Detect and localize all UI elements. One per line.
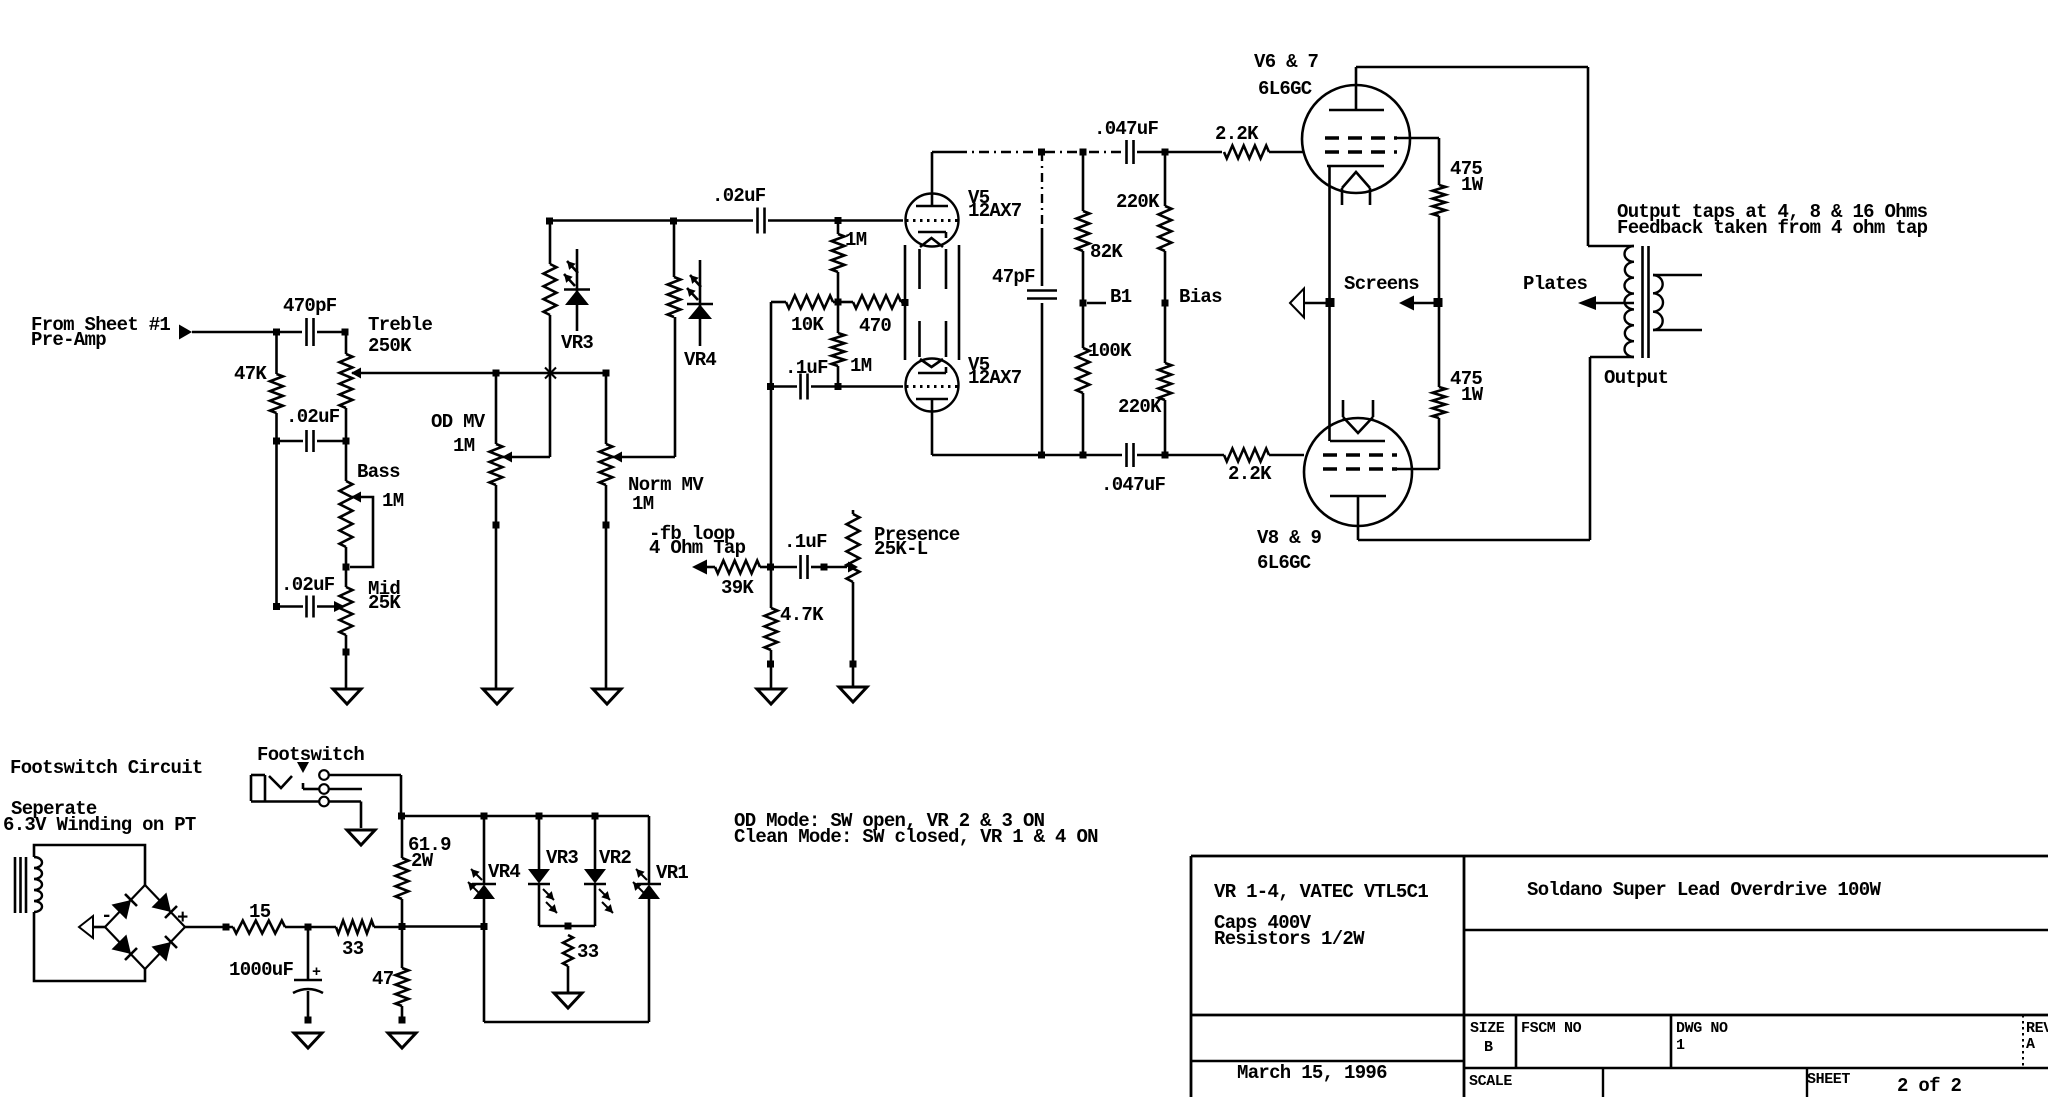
diode bridge bottom-right	[152, 936, 178, 962]
label date March 15 1996	[1237, 1062, 1387, 1084]
node bridge plus	[177, 907, 188, 929]
svg-text:1: 1	[1676, 1037, 1685, 1054]
vactrol VR2 LED footswitch	[584, 816, 631, 926]
resistor 220K lower	[1118, 303, 1172, 459]
svg-text:1M: 1M	[850, 355, 872, 377]
wire plus rail to VR4	[402, 923, 488, 930]
note VR 1-4 VATEC VTL5C1	[1214, 881, 1428, 903]
svg-text:Plates: Plates	[1523, 273, 1588, 295]
label FSCM NO	[1521, 1020, 1582, 1037]
resistor 475 1W lower	[1433, 303, 1484, 469]
svg-text:Footswitch: Footswitch	[257, 744, 364, 766]
capacitor .047uF lower	[1101, 443, 1224, 496]
ground Norm MV	[593, 689, 621, 704]
bridge rectifier diamond	[105, 885, 185, 969]
node Bias	[1162, 286, 1223, 308]
svg-text:1M: 1M	[845, 229, 867, 251]
svg-text:VR 1-4, VATEC VTL5C1: VR 1-4, VATEC VTL5C1	[1214, 881, 1428, 903]
svg-text:25K: 25K	[368, 592, 401, 614]
note OD mode	[734, 810, 1098, 848]
node Output	[1604, 367, 1668, 389]
node bridge minus	[79, 905, 112, 938]
svg-text:33: 33	[577, 941, 599, 963]
capacitor .1uF presence	[771, 531, 847, 579]
svg-text:6L6GC: 6L6GC	[1257, 552, 1311, 574]
svg-text:Soldano Super Lead Overdrive 1: Soldano Super Lead Overdrive 100W	[1527, 879, 1881, 901]
svg-text:1W: 1W	[1461, 174, 1484, 196]
svg-text:Clean Mode: SW closed, VR 1 &: Clean Mode: SW closed, VR 1 & 4 ON	[734, 826, 1098, 848]
resistor 475 1W upper	[1433, 158, 1484, 303]
wire jack ring stub	[329, 788, 362, 791]
svg-text:REV: REV	[2026, 1020, 2048, 1037]
svg-text:25K-L: 25K-L	[874, 538, 928, 560]
svg-text:1W: 1W	[1461, 384, 1484, 406]
label SIZE B	[1470, 1020, 1505, 1056]
svg-text:33: 33	[342, 938, 364, 960]
svg-text:FSCM NO: FSCM NO	[1521, 1020, 1582, 1037]
capacitor 1000uF	[229, 927, 323, 1024]
transformer T1 primary	[1625, 246, 1635, 357]
wire to V5 grid	[838, 219, 903, 222]
wire V5 cathode leads	[920, 249, 947, 357]
svg-text:250K: 250K	[368, 335, 412, 357]
wire plate rail bottom	[932, 454, 1122, 457]
resistor 47K	[234, 332, 283, 445]
svg-text:.047uF: .047uF	[1094, 118, 1159, 140]
wire input to 470pF	[192, 329, 302, 336]
wire 10K down leg	[767, 302, 774, 571]
ground OD MV	[483, 689, 511, 704]
svg-text:2.2K: 2.2K	[1228, 463, 1272, 485]
wire grid rail top	[550, 219, 754, 222]
potentiometer OD MV 1M	[431, 373, 512, 689]
note output taps	[1617, 201, 1928, 239]
svg-text:12AX7: 12AX7	[968, 367, 1022, 389]
note seperate winding	[3, 798, 196, 836]
svg-text:82K: 82K	[1090, 241, 1123, 263]
transformer T1 core	[1643, 246, 1649, 358]
svg-text:Bass: Bass	[357, 461, 400, 483]
potentiometer Mid 25K	[340, 547, 402, 689]
svg-text:220K: 220K	[1118, 396, 1162, 418]
resistor 47	[372, 927, 409, 1024]
wire bridge output	[185, 924, 233, 931]
diode bridge top-right	[152, 893, 178, 919]
svg-text:47: 47	[372, 968, 394, 990]
wire Norm wiper to VR4	[612, 317, 675, 457]
label SHEET 2 of 2	[1807, 1071, 1962, 1097]
svg-text:-: -	[101, 905, 112, 927]
resistor 2.2K lower	[1224, 449, 1304, 486]
potentiometer Presence 25K-L	[847, 510, 960, 687]
svg-text:2W: 2W	[411, 850, 434, 872]
vactrol VR3 LED footswitch	[528, 816, 578, 926]
capacitor .1uF cathode	[767, 357, 838, 400]
svg-text:SHEET: SHEET	[1807, 1071, 1850, 1088]
ground 4.7K	[757, 689, 785, 704]
node Plates	[1523, 273, 1634, 310]
label REV A	[2026, 1020, 2048, 1053]
svg-text:100K: 100K	[1088, 340, 1132, 362]
resistor 100K	[1077, 303, 1133, 459]
wire OD wiper to VR3	[502, 315, 556, 457]
diode bridge bottom-left	[112, 935, 138, 961]
svg-text:VR1: VR1	[656, 862, 688, 884]
svg-text:A: A	[2026, 1036, 2035, 1053]
svg-text:+: +	[312, 964, 321, 981]
jack footswitch	[251, 744, 364, 806]
capacitor 470pF	[283, 295, 349, 346]
triode V5 lower 12AX7	[906, 354, 1022, 455]
svg-text:.02uF: .02uF	[712, 185, 766, 207]
capacitor .02uF mid	[277, 574, 346, 618]
svg-text:DWG NO: DWG NO	[1676, 1020, 1728, 1037]
note footswitch circuit	[10, 757, 203, 779]
svg-text:470: 470	[859, 315, 891, 337]
wire V5 envelope sides	[905, 245, 959, 360]
wire treble wiper rail	[352, 370, 610, 377]
wire screen tap lower	[1394, 468, 1439, 471]
pentode V6 and 7 6L6GC	[1254, 51, 1410, 205]
svg-text:VR4: VR4	[488, 861, 520, 883]
transformer PT core	[15, 857, 26, 913]
svg-text:.02uF: .02uF	[281, 574, 335, 596]
svg-text:15: 15	[249, 901, 271, 923]
wire jack sleeve to ground	[329, 802, 361, 829]
svg-text:Bias: Bias	[1179, 286, 1222, 308]
svg-text:6.3V Winding on PT: 6.3V Winding on PT	[3, 814, 196, 836]
ground vactrol 33	[554, 993, 582, 1008]
ground 1000uF	[294, 1033, 322, 1048]
node -fb loop 4 Ohm Tap	[649, 523, 746, 575]
resistor 470	[838, 296, 909, 338]
svg-text:Pre-Amp: Pre-Amp	[31, 329, 106, 351]
pentode V8 and 9 6L6GC	[1257, 400, 1412, 574]
svg-text:.1uF: .1uF	[784, 531, 827, 553]
svg-text:V6 & 7: V6 & 7	[1254, 51, 1319, 73]
node input From Sheet #1 Pre-Amp	[31, 314, 192, 351]
transformer T1 secondary	[1653, 275, 1702, 330]
svg-text:B: B	[1484, 1039, 1493, 1056]
node Screens	[1290, 273, 1443, 318]
svg-text:12AX7: 12AX7	[968, 200, 1022, 222]
wire VR2 VR3 bottom rail	[539, 923, 595, 930]
svg-text:2 of 2: 2 of 2	[1897, 1075, 1962, 1097]
potentiometer Bass 1M	[340, 441, 404, 571]
wire jack tip to rail	[329, 775, 405, 820]
wire plate rail top	[932, 149, 1122, 156]
svg-text:OD MV: OD MV	[431, 411, 486, 433]
title Soldano Super Lead Overdrive 100W	[1527, 879, 1881, 901]
note caps resistors	[1214, 912, 1365, 950]
ground 47	[388, 1033, 416, 1048]
svg-text:1000uF: 1000uF	[229, 959, 294, 981]
wire .1uF to V5 lower grid	[838, 385, 903, 388]
svg-text:Screens: Screens	[1344, 273, 1419, 295]
vactrol VR4 LDR	[668, 218, 717, 372]
svg-text:Feedback taken from 4 ohm tap: Feedback taken from 4 ohm tap	[1617, 217, 1928, 239]
resistor 39K	[715, 561, 771, 600]
wire V8 plate to transformer	[1358, 357, 1634, 540]
resistor 10K	[771, 296, 838, 337]
svg-text:39K: 39K	[721, 577, 754, 599]
svg-text:47K: 47K	[234, 363, 267, 385]
svg-text:47pF: 47pF	[992, 266, 1035, 288]
svg-text:March 15, 1996: March 15, 1996	[1237, 1062, 1387, 1084]
capacitor 47pF	[992, 152, 1057, 459]
title block frame	[1191, 856, 2048, 1097]
node B1	[1080, 286, 1132, 308]
resistor 15	[233, 901, 312, 934]
diode bridge top-left	[112, 894, 138, 920]
svg-text:VR3: VR3	[546, 847, 578, 869]
svg-text:Output: Output	[1604, 367, 1668, 389]
potentiometer Treble 250K	[340, 314, 433, 441]
resistor 1M grid	[832, 221, 867, 306]
label DWG NO 1	[1676, 1020, 1728, 1054]
capacitor .02uF tone	[273, 406, 350, 610]
resistor 2.2K upper	[1215, 123, 1304, 159]
svg-text:4.7K: 4.7K	[780, 604, 824, 626]
transformer PT winding	[34, 845, 145, 981]
svg-text:220K: 220K	[1116, 191, 1160, 213]
svg-text:VR4: VR4	[684, 349, 716, 371]
vactrol VR1 LED footswitch	[633, 816, 688, 1022]
ground mid pot	[333, 689, 361, 704]
triode V5 upper 12AX7	[906, 152, 1022, 247]
svg-text:4 Ohm Tap: 4 Ohm Tap	[649, 537, 746, 559]
svg-text:.047uF: .047uF	[1101, 474, 1166, 496]
capacitor .047uF upper	[1094, 118, 1222, 164]
svg-text:SIZE: SIZE	[1470, 1020, 1505, 1037]
resistor 33	[308, 921, 406, 961]
potentiometer Norm MV 1M	[600, 373, 705, 689]
svg-text:.1uF: .1uF	[785, 357, 828, 379]
vactrol VR4 LED footswitch	[468, 816, 520, 1022]
svg-text:SCALE: SCALE	[1469, 1073, 1512, 1090]
svg-text:VR3: VR3	[561, 332, 593, 354]
svg-text:Resistors 1/2W: Resistors 1/2W	[1214, 928, 1365, 950]
svg-text:1M: 1M	[453, 435, 475, 457]
vactrol VR3 LED	[564, 249, 590, 331]
svg-text:6L6GC: 6L6GC	[1258, 78, 1312, 100]
resistor 220K upper	[1116, 152, 1172, 303]
ground jack	[347, 830, 375, 845]
svg-text:Footswitch Circuit: Footswitch Circuit	[10, 757, 203, 779]
wire cathode bus	[1328, 166, 1331, 441]
capacitor .02uF coupling	[712, 185, 842, 234]
vactrol VR4 LED	[687, 260, 713, 346]
resistor 61.9 2W	[396, 816, 452, 927]
svg-text:.02uF: .02uF	[286, 406, 340, 428]
svg-text:470pF: 470pF	[283, 295, 337, 317]
resistor 82K	[1077, 152, 1124, 303]
wire screen tap upper	[1394, 138, 1439, 185]
wire VR rail top	[401, 813, 649, 820]
svg-text:B1: B1	[1110, 286, 1132, 308]
ground presence	[839, 687, 867, 702]
svg-text:1M: 1M	[632, 493, 654, 515]
svg-text:1M: 1M	[382, 490, 404, 512]
resistor 4.7K	[765, 567, 825, 689]
svg-text:Treble: Treble	[368, 314, 433, 336]
svg-text:2.2K: 2.2K	[1215, 123, 1259, 145]
resistor 1M tail	[832, 302, 872, 390]
resistor 33 vactrol	[563, 935, 599, 993]
svg-text:10K: 10K	[791, 314, 824, 336]
vactrol VR3 LDR	[544, 218, 594, 355]
label SCALE	[1469, 1073, 1512, 1090]
svg-text:V8 & 9: V8 & 9	[1257, 527, 1322, 549]
wire V6 plate to transformer	[1356, 67, 1634, 246]
wire VR bank bottom rail	[484, 1021, 649, 1024]
svg-text:VR2: VR2	[599, 847, 631, 869]
